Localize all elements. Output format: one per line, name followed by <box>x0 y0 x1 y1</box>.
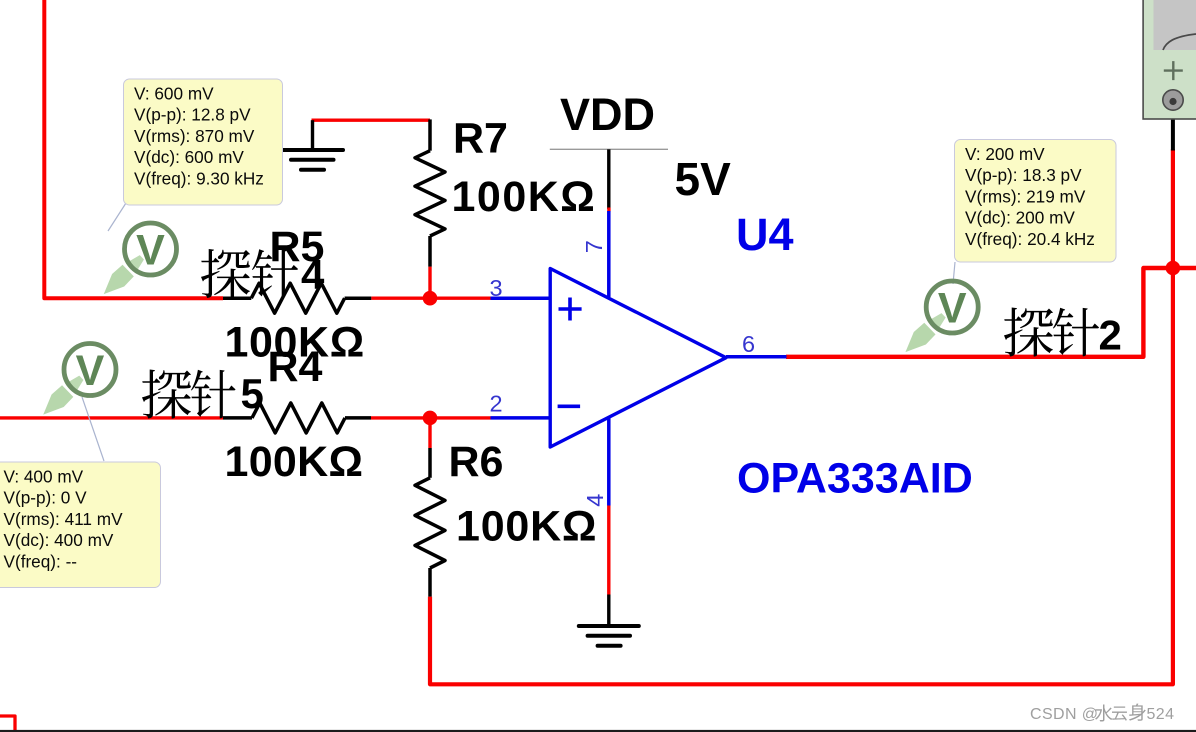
resistor R7 <box>415 119 445 266</box>
svg-text:3: 3 <box>490 275 503 301</box>
svg-text:4: 4 <box>582 494 608 507</box>
svg-text:V(freq): 9.30 kHz: V(freq): 9.30 kHz <box>134 169 264 189</box>
svg-text:V: 200 mV: V: 200 mV <box>965 144 1045 164</box>
probe tooltip T1 <box>124 79 283 205</box>
svg-text:V: V <box>136 227 165 275</box>
pin 4 <box>607 418 611 506</box>
probe icon 探针2 <box>899 309 949 358</box>
pin 2 <box>491 416 552 420</box>
svg-text:V(p-p): 12.8 pV: V(p-p): 12.8 pV <box>134 105 251 125</box>
wire pin4 red segment to ground2 <box>607 506 610 595</box>
wire VDD stem black <box>607 149 610 209</box>
svg-text:100KΩ: 100KΩ <box>452 173 597 221</box>
svg-text:V: V <box>938 285 967 333</box>
op-amp U4 pins blue <box>491 211 787 506</box>
svg-text:2: 2 <box>1099 312 1122 359</box>
wire junction B to R6 top <box>428 418 431 448</box>
svg-text:V: V <box>76 347 105 395</box>
pin end dot red <box>607 208 610 212</box>
wire ground1 to R7 top <box>312 118 431 121</box>
resistor R4 <box>223 403 371 433</box>
wire R7 bottom to junction A <box>428 267 431 299</box>
tooltip tail 3 <box>953 262 955 284</box>
svg-text:U4: U4 <box>736 209 794 260</box>
junction node A <box>423 291 438 306</box>
probe tooltip T3 <box>955 140 1117 263</box>
op-amp minus input symbol <box>558 404 581 408</box>
probe tooltip T2 <box>0 462 161 588</box>
svg-text:524: 524 <box>1147 706 1175 723</box>
svg-text:OPA333AID: OPA333AID <box>737 455 973 503</box>
op-amp plus input symbol <box>559 298 582 321</box>
tooltip tail 2 <box>82 397 104 461</box>
wire stub bottom-left <box>0 716 15 732</box>
resistor R6 <box>415 448 445 597</box>
svg-text:CSDN @: CSDN @ <box>1030 706 1098 723</box>
svg-text:V(p-p): 0 V: V(p-p): 0 V <box>4 488 88 508</box>
svg-text:5: 5 <box>241 370 264 417</box>
svg-text:V(p-p): 18.3 pV: V(p-p): 18.3 pV <box>965 165 1082 185</box>
svg-text:R4: R4 <box>268 343 323 391</box>
pin 3 <box>491 296 552 300</box>
svg-text:VDD: VDD <box>560 89 655 140</box>
wire output net: opamp out to corner up to junction C <box>786 268 1196 357</box>
svg-text:V(rms): 870 mV: V(rms): 870 mV <box>134 126 255 146</box>
svg-text:100KΩ: 100KΩ <box>225 438 364 486</box>
svg-text:V(dc): 600 mV: V(dc): 600 mV <box>134 147 244 167</box>
label 探针2 hanzi <box>1004 307 1099 356</box>
svg-text:V(rms): 411 mV: V(rms): 411 mV <box>4 509 124 529</box>
svg-text:V: 600 mV: V: 600 mV <box>134 83 214 103</box>
svg-text:R7: R7 <box>453 115 508 163</box>
instrument voltmeter panel <box>1143 0 1196 119</box>
op-amp U4 triangle <box>550 269 726 448</box>
probe icon 探针5 <box>37 372 87 421</box>
resistor R5 <box>223 283 371 313</box>
svg-text:6: 6 <box>742 331 755 357</box>
junction node C <box>1166 261 1181 276</box>
tooltip tail 1 <box>108 203 126 231</box>
svg-text:V(rms): 219 mV: V(rms): 219 mV <box>965 186 1086 206</box>
wire output net: R6 bottom, bottom run, right vertical, top link <box>430 149 1173 684</box>
ground GND2 <box>579 595 639 646</box>
pin 6 <box>726 355 787 359</box>
svg-text:V: 400 mV: V: 400 mV <box>4 466 84 486</box>
power VDD symbol <box>550 148 668 150</box>
svg-text:R6: R6 <box>449 438 504 486</box>
bottom black separator line <box>0 730 1196 732</box>
wire R5 right lead to junction and pin 3 <box>371 297 490 300</box>
wire net probe5: horizontal from left edge to R4 <box>0 416 223 419</box>
junction node B <box>423 411 438 426</box>
svg-text:4: 4 <box>301 251 325 298</box>
label 探针5 hanzi <box>142 369 235 418</box>
svg-text:5V: 5V <box>675 153 732 205</box>
svg-text:7: 7 <box>581 240 607 253</box>
probe icon 探针4 <box>98 251 148 300</box>
svg-text:V(dc): 200 mV: V(dc): 200 mV <box>965 208 1075 228</box>
svg-text:2: 2 <box>490 391 503 417</box>
svg-text:V(dc): 400 mV: V(dc): 400 mV <box>4 530 114 550</box>
wire black from instrument terminal <box>1171 108 1175 151</box>
wire net probe4: left vertical + horizontal to R5 <box>44 0 223 298</box>
svg-text:V(freq): --: V(freq): -- <box>4 552 78 572</box>
label 探针4 hanzi <box>201 249 298 298</box>
wire R4 right lead to junction and pin 2 <box>371 416 491 419</box>
svg-text:100KΩ: 100KΩ <box>456 503 597 551</box>
watermark CSDN <box>1030 704 1174 723</box>
ground GND1 <box>283 120 343 170</box>
pin 7 <box>607 211 611 297</box>
svg-text:V(freq): 20.4 kHz: V(freq): 20.4 kHz <box>965 229 1095 249</box>
